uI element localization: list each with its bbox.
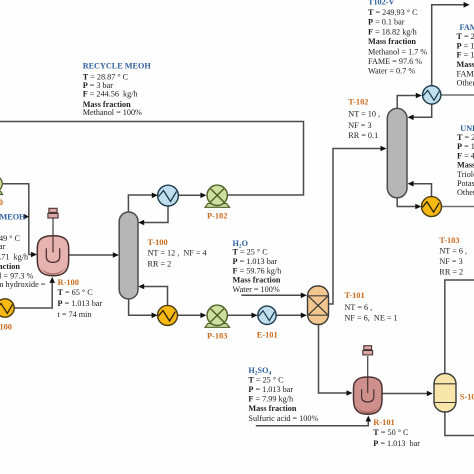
- svg-text:F = 18.3 kg/h: F = 18.3 kg/h: [457, 51, 474, 60]
- svg-text:FAME = 97.6 %: FAME = 97.6 %: [368, 57, 422, 66]
- svg-text:RR = 2: RR = 2: [439, 267, 463, 276]
- svg-text:Mass fraction: Mass fraction: [368, 37, 416, 46]
- svg-text:Other = 2.4 %: Other = 2.4 %: [457, 79, 474, 88]
- svg-text:T = 25 ° C: T = 25 ° C: [457, 133, 474, 142]
- svg-text:100: 100: [0, 198, 3, 207]
- svg-text:Water = 0.7 %: Water = 0.7 %: [368, 66, 415, 75]
- svg-text:Mass fraction: Mass fraction: [457, 161, 474, 170]
- svg-text:P = 3 bar: P = 3 bar: [83, 81, 114, 90]
- svg-text:Methanol = 100%: Methanol = 100%: [83, 108, 142, 117]
- svg-text:T = 25 ° C: T = 25 ° C: [457, 32, 474, 41]
- svg-text:Potassium = 5 %: Potassium = 5 %: [457, 179, 474, 188]
- svg-text:P-103: P-103: [207, 332, 227, 341]
- svg-text:RR = 2: RR = 2: [148, 260, 172, 269]
- svg-text:NF = 6, NE = 1: NF = 6, NE = 1: [345, 314, 398, 323]
- svg-text:T = 50 ° C: T = 50 ° C: [373, 428, 409, 437]
- svg-text:RECYCLE MEOH: RECYCLE MEOH: [83, 62, 152, 71]
- svg-text:E-100: E-100: [0, 322, 12, 331]
- svg-text:ar: ar: [0, 242, 6, 251]
- svg-text:T = 249.93 ° C: T = 249.93 ° C: [368, 8, 418, 17]
- svg-text:MEOH: MEOH: [0, 213, 26, 222]
- svg-text:R-101: R-101: [373, 418, 394, 427]
- svg-text:F = 244.56 kg/h: F = 244.56 kg/h: [83, 90, 138, 99]
- svg-text:Methanol = 1.7 %: Methanol = 1.7 %: [368, 48, 427, 57]
- svg-text:NT = 10 ,: NT = 10 ,: [348, 109, 380, 118]
- svg-text:Mass fraction: Mass fraction: [233, 276, 281, 285]
- svg-text:F = 7.99 kg/h: F = 7.99 kg/h: [248, 395, 293, 404]
- svg-text:S-100: S-100: [460, 393, 474, 402]
- svg-text:P = 1.013 bar: P = 1.013 bar: [373, 439, 420, 448]
- svg-text:P = 1.013 bar: P = 1.013 bar: [233, 257, 278, 266]
- svg-text:um hydroxide =: um hydroxide =: [0, 280, 46, 289]
- svg-text:UNREACTED: UNREACTED: [460, 124, 474, 133]
- svg-text:NF = 3: NF = 3: [439, 257, 462, 266]
- svg-text:Other = 40 %: Other = 40 %: [457, 188, 474, 197]
- svg-text:NT = 6 ,: NT = 6 ,: [439, 247, 467, 256]
- svg-text:FAME: FAME: [460, 23, 474, 32]
- svg-text:T102-V: T102-V: [368, 0, 394, 7]
- svg-text:F = 18.82 kg/h: F = 18.82 kg/h: [368, 27, 417, 36]
- svg-text:P-102: P-102: [207, 211, 227, 220]
- svg-text:P = 1 bar: P = 1 bar: [457, 41, 474, 50]
- svg-text:NF = 3: NF = 3: [348, 121, 371, 130]
- svg-text:T = 28.87 ° C: T = 28.87 ° C: [83, 72, 129, 81]
- svg-text:Water = 100%: Water = 100%: [233, 285, 280, 294]
- svg-text:t = 74 min: t = 74 min: [58, 310, 92, 319]
- svg-text:T-101: T-101: [345, 291, 365, 300]
- svg-text:R-100: R-100: [58, 278, 79, 287]
- svg-text:F = 4.1 kg/h: F = 4.1 kg/h: [457, 151, 474, 160]
- svg-text:T = 25 ° C: T = 25 ° C: [248, 376, 284, 385]
- svg-text:P = 0.1 bar: P = 0.1 bar: [368, 18, 405, 27]
- svg-text:Mass fraction: Mass fraction: [457, 60, 474, 69]
- svg-text:NT = 12 , NF = 4: NT = 12 , NF = 4: [148, 249, 207, 258]
- svg-text:FAME = 97.6 %: FAME = 97.6 %: [457, 69, 474, 78]
- svg-text:P = 1.013 bar: P = 1.013 bar: [58, 299, 103, 308]
- svg-text:T-103: T-103: [439, 236, 459, 245]
- svg-text:P = 1.013 bar: P = 1.013 bar: [248, 385, 293, 394]
- svg-text:NT = 6 ,: NT = 6 ,: [345, 303, 373, 312]
- svg-text:RR = 0.1: RR = 0.1: [348, 131, 378, 140]
- svg-text:T-100: T-100: [148, 238, 168, 247]
- svg-text:T = 65 ° C: T = 65 ° C: [58, 288, 94, 297]
- svg-text:action: action: [0, 262, 20, 271]
- svg-text:P = 1 bar: P = 1 bar: [457, 142, 474, 151]
- svg-text:.71 kg/h: .71 kg/h: [0, 252, 28, 261]
- svg-text:Sulfuric acid = 100%: Sulfuric acid = 100%: [248, 414, 318, 423]
- svg-text:E-101: E-101: [257, 331, 278, 340]
- svg-text:Mass fraction: Mass fraction: [248, 404, 296, 413]
- svg-text:Triolein = 55 %: Triolein = 55 %: [457, 170, 474, 179]
- svg-text:F = 59.76 kg/h: F = 59.76 kg/h: [233, 266, 282, 275]
- svg-text:T = 25 ° C: T = 25 ° C: [233, 248, 269, 257]
- svg-text:T-102: T-102: [348, 98, 368, 107]
